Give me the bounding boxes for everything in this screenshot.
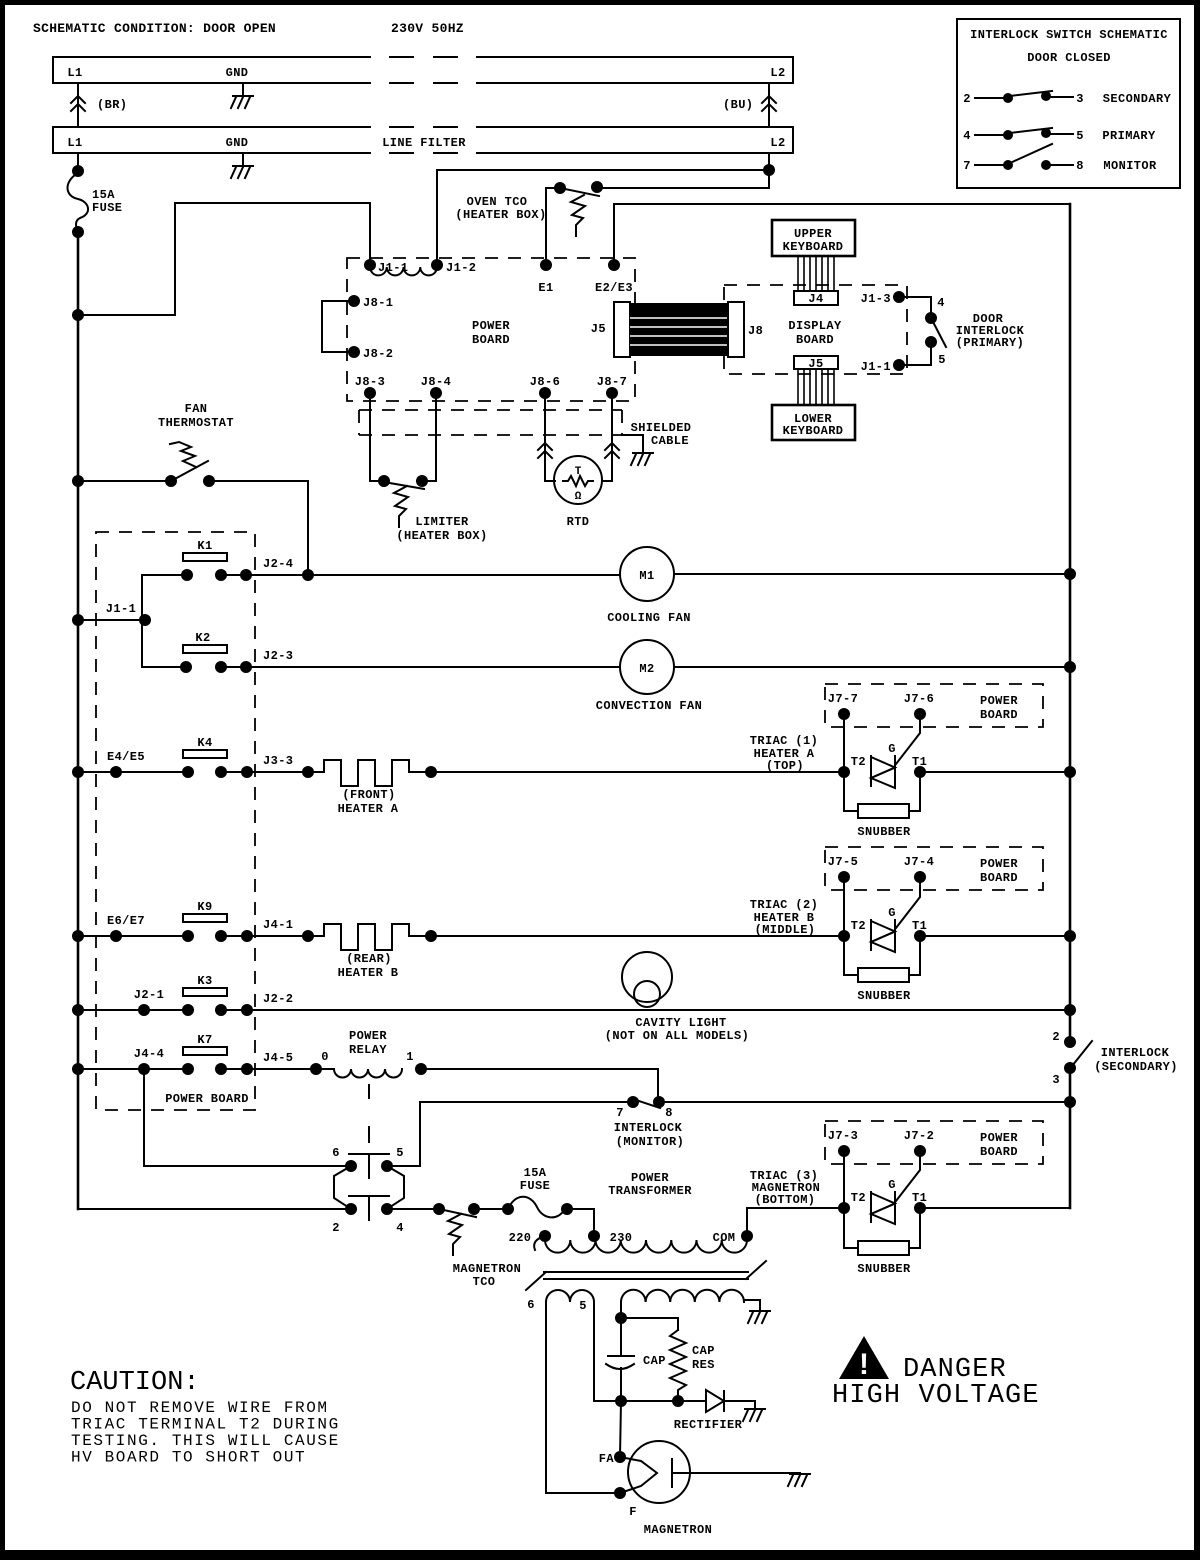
svg-text:J7-2: J7-2 (904, 1129, 934, 1143)
wire cap branch (621, 1318, 678, 1330)
wire monitor to rail (659, 1101, 1070, 1103)
relay K1 (183, 553, 227, 561)
junction dot J4-1 out (302, 930, 314, 942)
svg-text:6: 6 (527, 1298, 535, 1312)
svg-text:(BU): (BU) (723, 98, 753, 112)
wire HV bottom rail (594, 1400, 706, 1402)
cavity light lamp (622, 952, 672, 1002)
transformer core (526, 1261, 766, 1290)
wire J7-7 to T2 (triac1) (843, 714, 845, 772)
heater B element (324, 924, 409, 950)
svg-text:4: 4 (396, 1221, 404, 1235)
svg-text:POWER: POWER (980, 857, 1018, 871)
svg-text:J8: J8 (748, 324, 763, 338)
svg-text:POWER: POWER (349, 1029, 387, 1043)
svg-text:4: 4 (937, 296, 945, 310)
svg-text:INTERLOCK: INTERLOCK (614, 1121, 683, 1135)
svg-text:PRIMARY: PRIMARY (1102, 129, 1156, 143)
svg-text:J4: J4 (808, 292, 823, 306)
svg-text:6: 6 (332, 1146, 340, 1160)
wire J4-4 to relay contact 6 (144, 1069, 351, 1166)
switch oven TCO (554, 182, 566, 194)
capacitor CAP (620, 1318, 622, 1356)
svg-text:J2-1: J2-1 (134, 988, 164, 1002)
connector J5 (power board) (614, 302, 630, 357)
svg-text:5: 5 (396, 1146, 404, 1160)
svg-text:G: G (888, 906, 896, 920)
gate wire triac1 (896, 714, 920, 764)
pin E2/E3 (608, 259, 620, 271)
ground (rectifier) (743, 1409, 765, 1421)
junction dot cap bottom (615, 1395, 627, 1407)
svg-text:(MIDDLE): (MIDDLE) (755, 923, 816, 937)
svg-text:BOARD: BOARD (980, 871, 1018, 885)
junction dot L2 (763, 164, 775, 176)
wire HV to ground (744, 1300, 760, 1310)
connector box triac2 (825, 847, 1043, 890)
wire L2 to J1-2 (437, 170, 769, 265)
svg-text:2: 2 (963, 92, 971, 106)
relay contact top (349, 1153, 389, 1155)
junction dot rail J2-1 (72, 1004, 84, 1016)
wire left rail (77, 232, 80, 1209)
junction dot monitor rail (1064, 1096, 1076, 1108)
svg-text:M2: M2 (639, 662, 654, 676)
svg-text:DISPLAY: DISPLAY (788, 319, 842, 333)
wire J8-6 to RTD (545, 393, 555, 481)
svg-text:(SECONDARY): (SECONDARY) (1094, 1060, 1178, 1074)
svg-text:J8-3: J8-3 (355, 375, 385, 389)
junction dot J3-3 out (302, 766, 314, 778)
svg-text:K7: K7 (197, 1033, 212, 1047)
svg-text:4: 4 (963, 129, 971, 143)
svg-text:K4: K4 (197, 736, 212, 750)
svg-text:(MONITOR): (MONITOR) (616, 1135, 684, 1149)
svg-text:J7-3: J7-3 (828, 1129, 858, 1143)
svg-text:LIMITER: LIMITER (415, 515, 469, 529)
switch magnetron TCO (433, 1203, 445, 1215)
junction dots triac2 (838, 930, 850, 942)
display board box (724, 285, 907, 374)
svg-text:BOARD: BOARD (796, 333, 834, 347)
svg-text:SNUBBER: SNUBBER (857, 989, 911, 1003)
svg-text:HIGH VOLTAGE: HIGH VOLTAGE (832, 1381, 1040, 1411)
connector J4 (794, 291, 838, 305)
wire T1 to rail (triac1) (920, 771, 1070, 773)
svg-text:J8-1: J8-1 (363, 296, 393, 310)
connector J8 (display) (728, 302, 744, 357)
resistor CAP RES (670, 1330, 686, 1401)
svg-text:(FRONT): (FRONT) (342, 788, 395, 802)
svg-text:THERMOSTAT: THERMOSTAT (158, 416, 234, 430)
svg-text:(HEATER BOX): (HEATER BOX) (396, 529, 487, 543)
svg-text:J2-3: J2-3 (263, 649, 293, 663)
svg-text:RES: RES (692, 1358, 715, 1372)
svg-text:J7-7: J7-7 (828, 692, 858, 706)
svg-text:(BR): (BR) (97, 98, 127, 112)
pin J2-1 (138, 1004, 150, 1016)
svg-text:FAN: FAN (185, 402, 208, 416)
wire relay coil to monitor 8 (421, 1069, 658, 1102)
pin E6/E7 (110, 930, 122, 942)
arrow chevrons L1 (71, 96, 85, 111)
svg-text:J4-1: J4-1 (263, 918, 293, 932)
wire K1 to M1 (246, 574, 620, 576)
upper keyboard (772, 220, 855, 256)
svg-text:2: 2 (1052, 1030, 1060, 1044)
svg-text:L1: L1 (67, 66, 82, 80)
wire monitor line left (387, 1102, 633, 1166)
pin J1-1 (display) (893, 359, 905, 371)
svg-text:CAP: CAP (692, 1344, 715, 1358)
ribbon cable J5-J8 (630, 303, 728, 356)
svg-text:J8-2: J8-2 (363, 347, 393, 361)
wire L2 box1-box2 (768, 83, 770, 127)
svg-text:(NOT ON ALL MODELS): (NOT ON ALL MODELS) (605, 1029, 749, 1043)
gate wire triac3 (896, 1151, 920, 1201)
junction dot rail E6/E7 (72, 930, 84, 942)
junction dots K1 out (240, 569, 252, 581)
junction dot heater B out (425, 930, 437, 942)
svg-text:OVEN TCO: OVEN TCO (467, 195, 528, 209)
wire J1-3 to interlock (899, 297, 931, 318)
svg-text:POWER: POWER (472, 319, 510, 333)
bus box L1/GND/L2 (input) (53, 57, 793, 83)
svg-text:MAGNETRON: MAGNETRON (644, 1523, 712, 1537)
svg-text:CONVECTION FAN: CONVECTION FAN (596, 699, 702, 713)
pin J8-4 (430, 387, 442, 399)
wire magnetron anode (672, 1472, 800, 1474)
svg-text:5: 5 (938, 353, 946, 367)
junction dots triac1 (838, 766, 850, 778)
wire L1 below filter (77, 153, 79, 171)
svg-text:GND: GND (226, 136, 249, 150)
wire L1 box1-box2 (77, 83, 79, 127)
svg-text:POWER: POWER (980, 694, 1018, 708)
power board box (top) (347, 258, 635, 401)
svg-text:MAGNETRON: MAGNETRON (453, 1262, 521, 1276)
svg-text:DOOR CLOSED: DOOR CLOSED (1027, 51, 1111, 65)
pin J1-3 (display) (893, 291, 905, 303)
svg-text:KEYBOARD: KEYBOARD (783, 240, 844, 254)
wire thermostat to M1 line (209, 481, 308, 575)
svg-text:BOARD: BOARD (980, 708, 1018, 722)
triac Q1 (871, 756, 895, 786)
relay K7 (183, 1047, 227, 1055)
lower keyboard (772, 405, 855, 440)
pin J4-4 (138, 1063, 150, 1075)
shield chevrons J8-7 (605, 443, 619, 458)
pin J8-6 (539, 387, 551, 399)
svg-text:!: ! (859, 1348, 869, 1381)
svg-text:L2: L2 (770, 66, 785, 80)
svg-text:INTERLOCK SWITCH SCHEMATIC: INTERLOCK SWITCH SCHEMATIC (970, 28, 1168, 42)
svg-text:T2: T2 (851, 1191, 866, 1205)
svg-text:CAP: CAP (643, 1354, 666, 1368)
svg-text:(REAR): (REAR) (346, 952, 392, 966)
RTD sensor (554, 456, 602, 504)
wire K9 to heater B (247, 935, 324, 937)
pin J8-2 (348, 346, 360, 358)
wire diode to ground (724, 1401, 755, 1408)
magnetron tube (628, 1441, 690, 1503)
wire relay 4 to TCO (387, 1208, 439, 1210)
wire heater A to triac1 (409, 771, 844, 773)
svg-text:CAUTION:: CAUTION: (70, 1368, 200, 1398)
junction dot fuse2 right (561, 1203, 573, 1215)
wire COM to triac3 (747, 1208, 844, 1236)
junction dot rail E4/E5 (72, 766, 84, 778)
wire K4 to heater A (247, 771, 324, 773)
junction dots K3 out (241, 1004, 253, 1016)
svg-text:TRIAC (1): TRIAC (1) (750, 734, 818, 748)
relay contact dots (345, 1160, 357, 1172)
wire filament leg 6 (546, 1302, 620, 1493)
svg-text:T2: T2 (851, 919, 866, 933)
svg-text:5: 5 (579, 1299, 587, 1313)
junction dot fuse2 left (502, 1203, 514, 1215)
junction dot rail tap (72, 309, 84, 321)
wire heater B to triac2 (409, 935, 844, 937)
ground (box2 GND) (242, 153, 244, 165)
switch interlock monitor (627, 1096, 639, 1108)
switch door interlock primary (925, 312, 937, 324)
connector box triac3 (825, 1121, 1043, 1164)
svg-text:BOARD: BOARD (980, 1145, 1018, 1159)
relay K2 (183, 645, 227, 653)
svg-text:E2/E3: E2/E3 (595, 281, 633, 295)
connector box triac1 (825, 684, 1043, 727)
gate wire triac2 (896, 877, 920, 928)
junction dot J1-1 rail (72, 614, 84, 626)
motor M2 convection fan (620, 640, 674, 694)
bus box line filter (53, 127, 793, 153)
relay contact bottom (349, 1195, 389, 1197)
wire J8-3 to limiter (370, 393, 384, 481)
triac Q2 (871, 920, 895, 950)
svg-text:TRIAC (2): TRIAC (2) (750, 898, 818, 912)
svg-text:POWER BOARD: POWER BOARD (165, 1092, 249, 1106)
svg-text:DO NOT REMOVE WIRE FROM: DO NOT REMOVE WIRE FROM (71, 1399, 329, 1417)
svg-text:SECONDARY: SECONDARY (1103, 92, 1172, 106)
svg-text:(HEATER BOX): (HEATER BOX) (455, 208, 546, 222)
wire TCO to fuse (474, 1208, 508, 1210)
transformer primary (539, 1230, 551, 1242)
wire oven TCO to E1 (546, 188, 560, 265)
svg-text:HEATER B: HEATER B (338, 966, 399, 980)
junction dot fuse bottom (72, 226, 84, 238)
relay K3 (183, 988, 227, 996)
svg-text:KEYBOARD: KEYBOARD (783, 424, 844, 438)
svg-text:2: 2 (332, 1221, 340, 1235)
relay K9 (183, 914, 227, 922)
pin J1-1 (power board) (364, 259, 376, 271)
ground (HV winding) (748, 1311, 770, 1323)
svg-text:F: F (629, 1505, 637, 1519)
svg-text:J5: J5 (591, 322, 606, 336)
wire shield to ground (622, 435, 643, 452)
wire fuse to J1-1 (78, 203, 370, 315)
svg-text:E6/E7: E6/E7 (107, 914, 145, 928)
ribbon upper keyboard (797, 256, 799, 291)
svg-text:K3: K3 (197, 974, 212, 988)
svg-text:TCO: TCO (473, 1275, 496, 1289)
svg-text:8: 8 (665, 1106, 673, 1120)
fuse 15A (transformer) (508, 1197, 565, 1218)
svg-text:FA: FA (599, 1452, 615, 1466)
magnetron cathode (620, 1457, 672, 1493)
wire J8-1/J8-2 (322, 301, 354, 352)
svg-text:HEATER A: HEATER A (338, 802, 399, 816)
wire L2 to junction (768, 153, 770, 188)
wire L2 to oven TCO (597, 187, 769, 189)
danger triangle (839, 1336, 889, 1379)
svg-text:J5: J5 (808, 357, 823, 371)
wire right rail upper (1069, 204, 1072, 1042)
ground (magnetron) (788, 1474, 810, 1486)
svg-text:POWER: POWER (631, 1171, 669, 1185)
svg-text:SNUBBER: SNUBBER (857, 1262, 911, 1276)
junction dot heater A out (425, 766, 437, 778)
junction dots right rail (1064, 568, 1076, 580)
pin F (614, 1487, 626, 1499)
svg-text:COOLING FAN: COOLING FAN (607, 611, 691, 625)
triac Q3 (871, 1192, 895, 1222)
svg-text:E1: E1 (538, 281, 553, 295)
junction dot cap top (615, 1312, 627, 1324)
wire K7 to relay coil (247, 1068, 334, 1070)
svg-text:J1-2: J1-2 (446, 261, 476, 275)
svg-text:COM: COM (713, 1231, 736, 1245)
svg-text:HV BOARD TO SHORT OUT: HV BOARD TO SHORT OUT (71, 1449, 306, 1467)
svg-text:3: 3 (1076, 92, 1084, 106)
svg-text:T2: T2 (851, 755, 866, 769)
svg-text:Ω: Ω (575, 491, 582, 503)
svg-text:TESTING. THIS WILL CAUSE: TESTING. THIS WILL CAUSE (71, 1432, 340, 1450)
svg-text:J7-5: J7-5 (828, 855, 858, 869)
pin J1-2 (power board) (431, 259, 443, 271)
ribbon lower keyboard (797, 369, 799, 405)
svg-text:K1: K1 (197, 539, 212, 553)
coil J1-1/J1-2 (370, 267, 437, 275)
svg-text:L1: L1 (67, 136, 82, 150)
svg-text:(TOP): (TOP) (766, 759, 804, 773)
svg-text:SCHEMATIC CONDITION: DOOR OPEN: SCHEMATIC CONDITION: DOOR OPEN (33, 21, 276, 36)
wire J4-4 row left (78, 1068, 188, 1070)
wire J2-1 row left (78, 1009, 188, 1011)
wire J1-1 to interlock (899, 342, 931, 365)
junction dots K7 out (241, 1063, 253, 1075)
power board box (left) (96, 532, 255, 1110)
junction dots triac3 (838, 1202, 850, 1214)
svg-text:TRIAC TERMINAL T2 DURING: TRIAC TERMINAL T2 DURING (71, 1416, 340, 1434)
pin J8-1 (348, 295, 360, 307)
interlock schematic box (957, 19, 1180, 188)
svg-text:SNUBBER: SNUBBER (857, 825, 911, 839)
pin J8-3 (364, 387, 376, 399)
wire J1-1 stub (78, 619, 145, 621)
wire K3 to rail (cavity light) (247, 1009, 1070, 1011)
svg-text:0: 0 (321, 1050, 329, 1064)
diode rectifier (706, 1390, 724, 1412)
wire M1 to rail (674, 573, 1070, 575)
svg-text:UPPER: UPPER (794, 227, 832, 241)
svg-text:RECTIFIER: RECTIFIER (674, 1418, 743, 1432)
switch fan thermostat (165, 475, 177, 487)
wire cap to FA (620, 1401, 621, 1457)
snubber 3 (844, 1208, 858, 1248)
wire thermostat left (78, 480, 171, 482)
svg-text:FUSE: FUSE (92, 201, 122, 215)
pin E4/E5 (110, 766, 122, 778)
svg-text:J8-7: J8-7 (597, 375, 627, 389)
power relay coil (334, 1069, 402, 1078)
transformer filament winding (546, 1290, 594, 1302)
svg-text:15A: 15A (92, 188, 115, 202)
svg-text:J3-3: J3-3 (263, 754, 293, 768)
wire K1-K2 vertical (141, 575, 143, 667)
wire M2 to rail (674, 666, 1070, 668)
wire filament leg 5 (593, 1302, 595, 1401)
svg-text:L2: L2 (770, 136, 785, 150)
shield chevrons J8-6 (538, 443, 552, 458)
svg-text:MONITOR: MONITOR (1103, 159, 1157, 173)
svg-text:G: G (888, 742, 896, 756)
svg-text:J2-2: J2-2 (263, 992, 293, 1006)
shielded cable box (359, 410, 622, 435)
pin E1 (540, 259, 552, 271)
svg-text:J1-1: J1-1 (106, 602, 136, 616)
svg-text:RTD: RTD (567, 515, 590, 529)
snubber 1 (844, 772, 858, 811)
arrow chevrons L2 (762, 96, 776, 111)
junction dot thermostat (72, 475, 84, 487)
junction dots K4 out (241, 766, 253, 778)
wire HV to cap (620, 1302, 622, 1318)
svg-text:J2-4: J2-4 (263, 557, 293, 571)
wire E6/E7 row left (78, 935, 188, 937)
svg-text:J8-6: J8-6 (530, 375, 560, 389)
junction dot relay coil in (310, 1063, 322, 1075)
junction dot capres bottom (672, 1395, 684, 1407)
heater A element (324, 760, 409, 786)
svg-text:K9: K9 (197, 900, 212, 914)
svg-text:G: G (888, 1178, 896, 1192)
pin FA (614, 1451, 626, 1463)
svg-text:GND: GND (226, 66, 249, 80)
wire T1 to rail (triac2) (920, 935, 1070, 937)
junction dot relay coil out (415, 1063, 427, 1075)
motor M1 cooling fan (620, 547, 674, 601)
svg-text:1: 1 (406, 1050, 414, 1064)
wire J7-5 to T2 (triac2) (843, 877, 845, 936)
transformer HV winding (621, 1290, 744, 1302)
svg-text:RELAY: RELAY (349, 1043, 387, 1057)
svg-text:5: 5 (1076, 129, 1084, 143)
svg-text:(BOTTOM): (BOTTOM) (755, 1193, 816, 1207)
svg-text:8: 8 (1076, 159, 1084, 173)
pin J1-1 (left) (139, 614, 151, 626)
junction dot rail J4-4 (72, 1063, 84, 1075)
wire J7-3 to T2 (triac3) (843, 1151, 845, 1208)
ground (box1 GND) (242, 83, 244, 95)
wire E2/E3 to right rail (614, 204, 1070, 265)
svg-text:J4-5: J4-5 (263, 1051, 293, 1065)
wire J8-4 to limiter (422, 393, 436, 481)
svg-text:230V 50HZ: 230V 50HZ (391, 21, 464, 36)
fuse 15A (left rail) (68, 173, 89, 232)
svg-text:J7-4: J7-4 (904, 855, 934, 869)
